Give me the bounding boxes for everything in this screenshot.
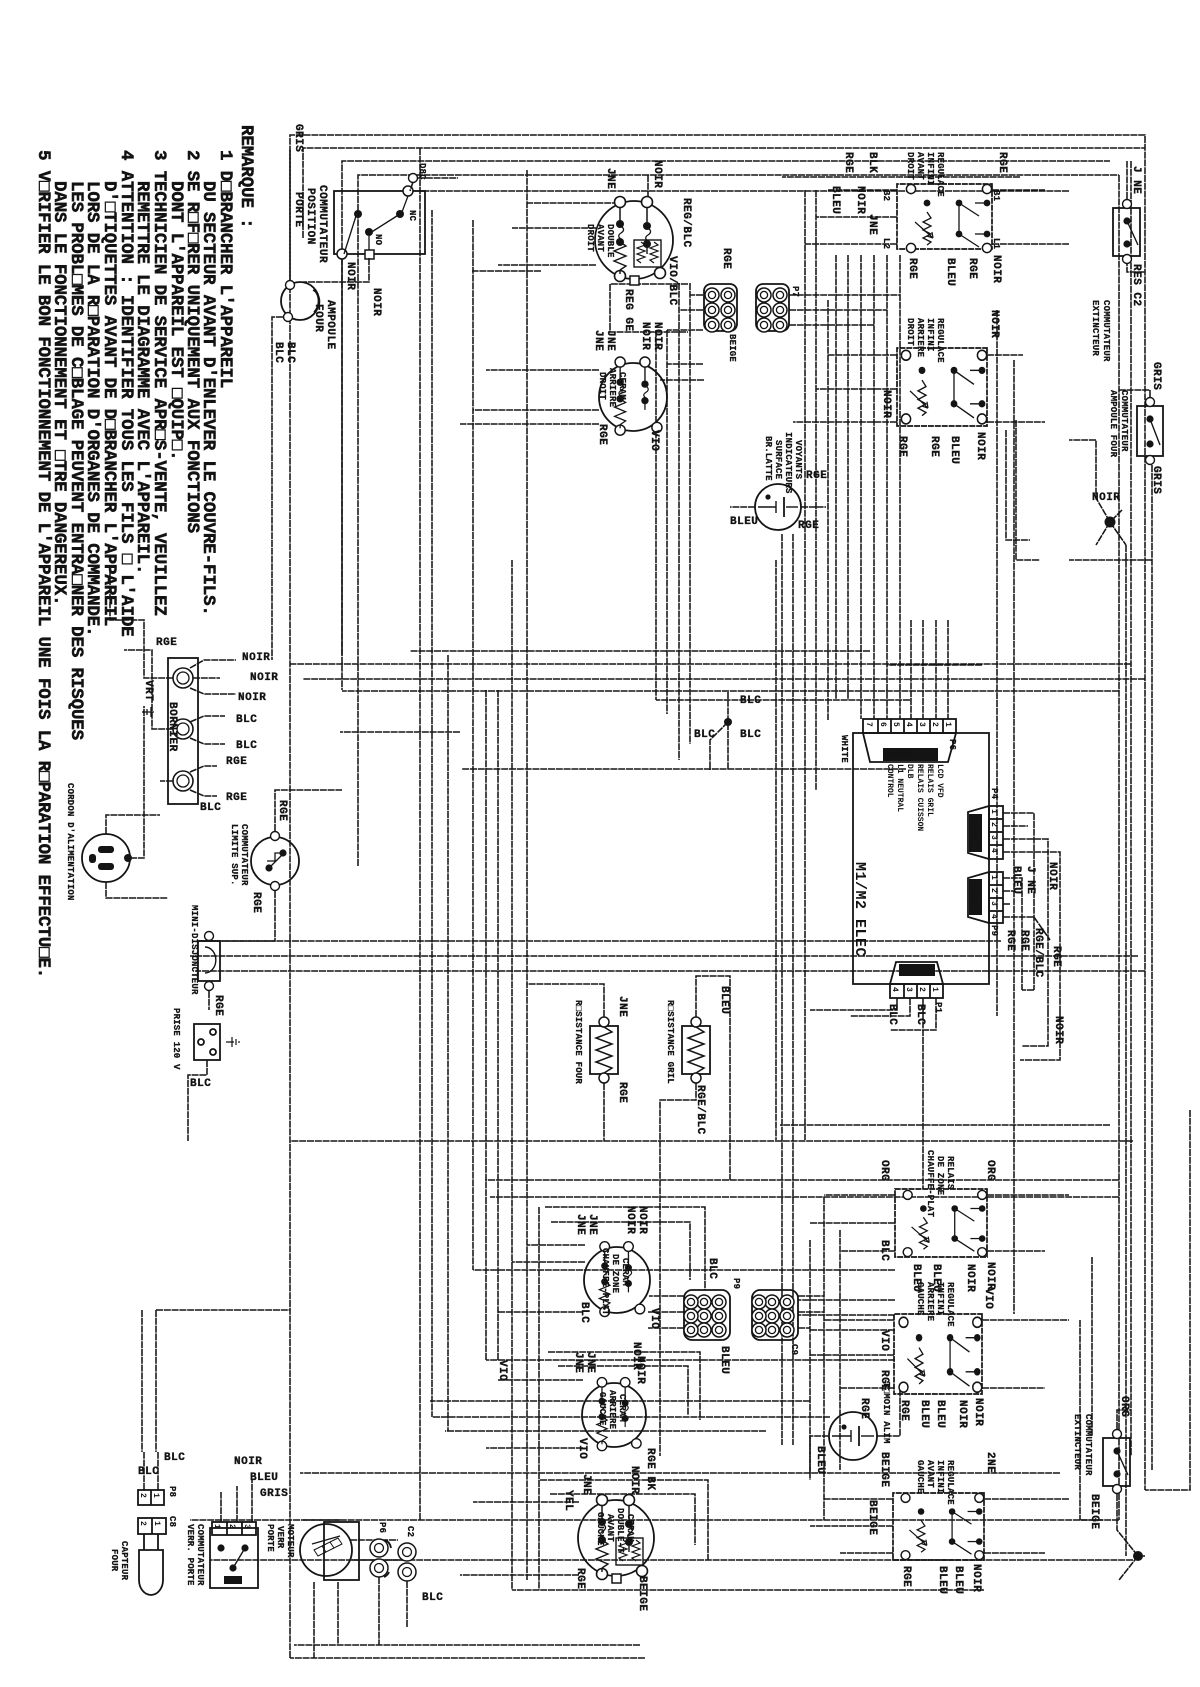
svg-text:LCD VFD: LCD VFD bbox=[935, 764, 944, 798]
svg-text:ORG: ORG bbox=[1118, 1396, 1130, 1417]
svg-text:POSITION: POSITION bbox=[304, 188, 316, 245]
svg-text:DROIT: DROIT bbox=[905, 152, 915, 180]
svg-text:AMPOULE: AMPOULE bbox=[324, 300, 336, 350]
svg-text:RGE: RGE bbox=[798, 520, 819, 532]
svg-text:NOIR: NOIR bbox=[990, 255, 1002, 283]
svg-text:BLC: BLC bbox=[914, 1004, 926, 1025]
wire top nest bbox=[1118, 175, 1120, 1520]
svg-text:REMARQUE :: REMARQUE : bbox=[236, 125, 256, 229]
svg-text:BEIGE: BEIGE bbox=[878, 1452, 890, 1488]
svg-text:BORNIER: BORNIER bbox=[166, 702, 178, 752]
svg-text:NOIR: NOIR bbox=[1046, 862, 1058, 890]
svg-text:BEIGE: BEIGE bbox=[727, 334, 737, 362]
svg-text:GAUCHE: GAUCHE bbox=[595, 1512, 605, 1546]
svg-text:BLEU: BLEU bbox=[934, 1400, 946, 1428]
connector 2x3 C7 beige bbox=[704, 248, 737, 362]
svg-text:JNE: JNE bbox=[592, 330, 604, 351]
svg-text:NOIR: NOIR bbox=[242, 652, 270, 664]
svg-text:RGE: RGE bbox=[806, 470, 827, 482]
svg-text:VIO: VIO bbox=[878, 1330, 890, 1351]
svg-text:LIMITE SUP.: LIMITE SUP. bbox=[229, 824, 239, 886]
svg-text:1: 1 bbox=[152, 1521, 161, 1526]
svg-text:RGE: RGE bbox=[226, 756, 247, 768]
svg-text:NOIR: NOIR bbox=[964, 1264, 976, 1292]
svg-text:2NE: 2NE bbox=[984, 1452, 996, 1473]
svg-text:P7: P7 bbox=[790, 286, 800, 297]
svg-text:3: 3 bbox=[242, 1524, 251, 1529]
svg-text:RGE: RGE bbox=[212, 995, 224, 1016]
svg-text:BLC: BLC bbox=[740, 695, 761, 707]
capteur four bbox=[109, 1452, 185, 1595]
svg-text:DOUBLE: DOUBLE bbox=[605, 224, 615, 258]
svg-text:NOIR: NOIR bbox=[636, 1206, 648, 1234]
svg-text:MINI-DISJONCTEUR: MINI-DISJONCTEUR bbox=[189, 905, 199, 995]
svg-text:3: 3 bbox=[917, 722, 926, 727]
svg-text:BLC: BLC bbox=[200, 802, 221, 814]
svg-text:2: 2 bbox=[917, 987, 926, 992]
svg-text:GREEN: GREEN bbox=[969, 817, 978, 841]
svg-text:NOIR: NOIR bbox=[972, 1398, 984, 1426]
svg-text:NOIR: NOIR bbox=[988, 310, 1000, 338]
wire extincteur top stubs bbox=[1127, 161, 1145, 272]
wire left long verticals additions bbox=[782, 176, 1020, 178]
svg-text:WHITE: WHITE bbox=[839, 735, 849, 763]
svg-text:INFINI: INFINI bbox=[925, 152, 935, 186]
svg-text:RGE: RGE bbox=[996, 152, 1008, 173]
regulateur zone chauffe-plat R3 bbox=[878, 1150, 996, 1292]
svg-text:4: 4 bbox=[989, 848, 998, 853]
svg-text:DE ZONE: DE ZONE bbox=[935, 1156, 945, 1196]
svg-text:GAUCHE: GAUCHE bbox=[597, 1392, 607, 1426]
svg-text:AVANT: AVANT bbox=[605, 1514, 615, 1542]
svg-text:YEL: YEL bbox=[562, 1490, 574, 1511]
svg-text:JNE: JNE bbox=[586, 1214, 598, 1235]
svg-text:P1: P1 bbox=[933, 1002, 943, 1014]
wire m1m2 right noir runs bbox=[1020, 990, 1060, 1060]
svg-text:AVANT: AVANT bbox=[915, 152, 925, 180]
svg-text:RGE: RGE bbox=[596, 424, 608, 445]
svg-text:B1: B1 bbox=[991, 190, 1001, 202]
svg-text:VIO: VIO bbox=[648, 1308, 660, 1329]
wire junction blc bbox=[724, 718, 732, 726]
ampoule four bbox=[272, 124, 336, 660]
svg-text:WHITE: WHITE bbox=[888, 751, 912, 760]
svg-text:1: 1 bbox=[930, 987, 939, 992]
svg-text:RGE: RGE bbox=[616, 1082, 628, 1103]
svg-text:BLC: BLC bbox=[706, 1258, 718, 1279]
wire capteur runs bbox=[142, 1310, 290, 1452]
svg-text:BLEU: BLEU bbox=[730, 516, 758, 528]
svg-text:RGE: RGE bbox=[898, 1400, 910, 1421]
svg-text:ARRIERE: ARRIERE bbox=[915, 318, 925, 358]
svg-text:NOIR: NOIR bbox=[984, 1262, 996, 1290]
wire mid-band horizontals feeding bottom elements bbox=[655, 330, 657, 700]
regulateur infini arriere droit R2 bbox=[880, 310, 1000, 464]
svg-text:NOIR: NOIR bbox=[651, 160, 663, 188]
ceram de zone chauffe-plat bbox=[574, 1206, 660, 1329]
svg-text:NOIR: NOIR bbox=[974, 432, 986, 460]
wire ceram2 drops bbox=[486, 369, 599, 371]
svg-text:BLC: BLC bbox=[236, 714, 257, 726]
svg-text:1: 1 bbox=[151, 1493, 160, 1498]
svg-text:VIO: VIO bbox=[982, 1288, 994, 1309]
svg-text:INFINI: INFINI bbox=[935, 1460, 945, 1494]
svg-text:VIO: VIO bbox=[496, 1360, 508, 1381]
svg-text:2: 2 bbox=[227, 1524, 236, 1529]
svg-text:NOIR: NOIR bbox=[238, 692, 266, 704]
svg-text:1: 1 bbox=[989, 809, 998, 814]
svg-text:JNE: JNE bbox=[604, 330, 616, 351]
svg-text:BLEU: BLEU bbox=[718, 1346, 730, 1374]
svg-text:BLC: BLC bbox=[236, 740, 257, 752]
svg-text:4: 4 bbox=[989, 914, 998, 919]
svg-text:PRISE 120 V: PRISE 120 V bbox=[171, 1008, 181, 1070]
commutateur limite sup bbox=[198, 790, 342, 941]
svg-text:DE ZONE: DE ZONE bbox=[610, 1254, 620, 1294]
svg-text:CORDON D'ALIMENTATION: CORDON D'ALIMENTATION bbox=[65, 783, 75, 901]
svg-text:L1 NEUTRAL: L1 NEUTRAL bbox=[895, 764, 904, 812]
junction noir top bbox=[1105, 517, 1116, 528]
connecteur c2 moteur bbox=[379, 1526, 443, 1645]
svg-text:PORTE: PORTE bbox=[265, 1524, 275, 1552]
svg-text:BLC: BLC bbox=[878, 1240, 890, 1261]
svg-text:RGE: RGE bbox=[1004, 930, 1016, 951]
svg-text:REGULACE: REGULACE bbox=[945, 1460, 955, 1505]
svg-text:RGE: RGE bbox=[226, 792, 247, 804]
svg-text:NOIR: NOIR bbox=[370, 288, 382, 316]
svg-text:VIO: VIO bbox=[648, 430, 660, 451]
svg-text:ARRIERE: ARRIERE bbox=[925, 1282, 935, 1322]
svg-text:VERR. PORTE: VERR. PORTE bbox=[185, 1524, 195, 1586]
wire rails around bottom ceram groups bbox=[545, 1207, 705, 1290]
svg-text:NOIR: NOIR bbox=[1052, 1016, 1064, 1044]
svg-text:BEIGE: BEIGE bbox=[1088, 1494, 1100, 1530]
wire mid horizontals bbox=[419, 148, 421, 1520]
connecteur p6 moteur bbox=[370, 1522, 391, 1577]
svg-text:RGE: RGE bbox=[720, 248, 732, 269]
svg-text:RELAIS GRIL: RELAIS GRIL bbox=[925, 764, 934, 817]
wire right verticals bbox=[290, 1140, 1133, 1142]
wire mid verticals bbox=[290, 663, 1131, 665]
moteur verr porte bbox=[265, 1522, 359, 1658]
svg-text:DROIT: DROIT bbox=[905, 318, 915, 346]
svg-text:BLEU: BLEU bbox=[952, 1566, 964, 1594]
svg-text:5 V□RIFIER LE BON FONCTIONNEM: 5 V□RIFIER LE BON FONCTIONNEMENT DE L'AP… bbox=[33, 150, 53, 978]
svg-text:BLEU: BLEU bbox=[944, 258, 956, 286]
svg-text:6: 6 bbox=[878, 722, 887, 727]
svg-text:BLC: BLC bbox=[190, 1078, 211, 1090]
wire outer loop bbox=[290, 135, 1145, 1658]
svg-text:RELAIS: RELAIS bbox=[945, 1156, 955, 1190]
svg-text:7: 7 bbox=[864, 722, 873, 727]
svg-text:3: 3 bbox=[904, 987, 913, 992]
svg-text:REGULACE: REGULACE bbox=[935, 152, 945, 197]
regulateur infini avant droit R1 bbox=[866, 152, 1008, 286]
svg-text:P8: P8 bbox=[167, 1486, 177, 1497]
svg-text:CERAM: CERAM bbox=[617, 1394, 627, 1422]
svg-text:ORG: ORG bbox=[984, 1160, 996, 1181]
svg-text:J NE: J NE bbox=[1130, 166, 1142, 194]
svg-text:NOIR: NOIR bbox=[880, 390, 892, 418]
svg-text:JNE: JNE bbox=[604, 168, 616, 189]
svg-text:P9: P9 bbox=[989, 925, 999, 936]
svg-text:NOIR: NOIR bbox=[970, 1564, 982, 1592]
svg-text:BLC: BLC bbox=[164, 1452, 185, 1464]
mini-disjoncteur bbox=[189, 905, 224, 1016]
pin strip P1 right bbox=[886, 962, 943, 1025]
svg-text:CERAM: CERAM bbox=[625, 1514, 635, 1542]
commutateur position porte bbox=[292, 163, 458, 690]
svg-text:GRIS: GRIS bbox=[1150, 362, 1162, 390]
svg-text:4: 4 bbox=[904, 722, 913, 727]
svg-text:3: 3 bbox=[989, 901, 998, 906]
svg-text:DOUBLE-T: DOUBLE-T bbox=[615, 1508, 625, 1553]
wire conn risers top cluster bbox=[789, 294, 900, 296]
svg-text:BR.LATTE: BR.LATTE bbox=[763, 436, 773, 481]
wire extincteur bottom stubs bbox=[1133, 1551, 1143, 1561]
svg-text:P6: P6 bbox=[947, 739, 957, 750]
svg-text:P9: P9 bbox=[731, 1278, 741, 1289]
svg-text:BLC: BLC bbox=[138, 1466, 159, 1478]
svg-text:NOIR: NOIR bbox=[234, 1456, 262, 1468]
svg-text:L2: L2 bbox=[881, 238, 891, 249]
svg-text:VIO/BLC: VIO/BLC bbox=[666, 256, 678, 306]
bornier terminal block bbox=[110, 566, 278, 814]
svg-text:CERAM: CERAM bbox=[617, 372, 627, 400]
svg-text:BEIGE: BEIGE bbox=[636, 1576, 648, 1612]
svg-text:RGE: RGE bbox=[156, 637, 177, 649]
svg-text:BLEU: BLEU bbox=[936, 1566, 948, 1594]
svg-text:RGE: RGE bbox=[1018, 930, 1030, 951]
wire right-half mid horizontals bbox=[823, 1197, 825, 1520]
svg-text:JNE: JNE bbox=[866, 214, 878, 235]
commutateur ampoule four switch bbox=[1108, 362, 1163, 494]
svg-text:CERAM: CERAM bbox=[620, 1258, 630, 1286]
svg-text:BLEU: BLEU bbox=[814, 1446, 826, 1474]
svg-text:1: 1 bbox=[943, 722, 952, 727]
svg-text:5: 5 bbox=[891, 722, 900, 727]
svg-text:NOIR: NOIR bbox=[634, 1356, 646, 1384]
relay riser wires R3 R4 R5 bbox=[810, 1195, 1069, 1251]
svg-text:RGE/BLC: RGE/BLC bbox=[1032, 928, 1044, 978]
commutateur extincteur (top) bbox=[1090, 166, 1142, 362]
svg-text:COMMUTATEUR: COMMUTATEUR bbox=[316, 185, 328, 263]
svg-text:RES C2: RES C2 bbox=[1130, 264, 1142, 307]
svg-text:GAUCHE: GAUCHE bbox=[915, 1460, 925, 1494]
svg-text:L1: L1 bbox=[991, 238, 1001, 250]
prise 120 v bbox=[171, 1008, 239, 1141]
svg-text:CAPTEUR: CAPTEUR bbox=[119, 1541, 129, 1581]
connector 2x3 upper pair bbox=[756, 284, 800, 332]
svg-text:MOTEUR: MOTEUR bbox=[285, 1524, 295, 1558]
svg-text:FOUR: FOUR bbox=[109, 1549, 119, 1572]
svg-text:GRIS: GRIS bbox=[1150, 466, 1162, 494]
ceram double avant droit bbox=[585, 160, 692, 332]
pin strip P9 top bbox=[968, 872, 1062, 990]
svg-text:P4: P4 bbox=[989, 788, 999, 800]
ceram double-t avant gauche bbox=[562, 1356, 654, 1612]
svg-text:VOYANTS: VOYANTS bbox=[793, 440, 803, 480]
relay riser wires R1 R2 bbox=[805, 190, 897, 244]
svg-text:JNE: JNE bbox=[616, 996, 628, 1017]
svg-text:GAUCHE: GAUCHE bbox=[915, 1282, 925, 1316]
svg-text:BLACK: BLACK bbox=[969, 882, 978, 906]
svg-text:2: 2 bbox=[138, 1521, 147, 1526]
svg-text:CHAUFFE-PLAT: CHAUFFE-PLAT bbox=[925, 1150, 935, 1218]
svg-text:COMMUTATEUR: COMMUTATEUR bbox=[1101, 300, 1111, 362]
svg-text:ARRIERE: ARRIERE bbox=[607, 1390, 617, 1430]
svg-text:2: 2 bbox=[989, 888, 998, 893]
svg-text:CONTROL: CONTROL bbox=[885, 764, 894, 798]
svg-text:REG/BLC: REG/BLC bbox=[680, 198, 692, 248]
svg-text:2: 2 bbox=[138, 1493, 147, 1498]
svg-text:4: 4 bbox=[890, 987, 899, 992]
wire m1m2 p6 feeds bbox=[861, 255, 900, 719]
svg-text:BLEU: BLEU bbox=[918, 1400, 930, 1428]
wire right-bottom verticals bbox=[490, 1196, 1119, 1198]
svg-text:2: 2 bbox=[930, 722, 939, 727]
svg-text:COMMUTATEUR: COMMUTATEUR bbox=[239, 824, 249, 886]
svg-text:NOIR: NOIR bbox=[628, 1466, 640, 1494]
svg-text:NC: NC bbox=[407, 210, 417, 222]
svg-text:AMPOULE FOUR: AMPOULE FOUR bbox=[1108, 390, 1118, 458]
svg-text:1: 1 bbox=[212, 1524, 221, 1529]
svg-text:DROIT: DROIT bbox=[585, 224, 595, 252]
svg-text:INFINI: INFINI bbox=[935, 1282, 945, 1316]
svg-text:NOIR: NOIR bbox=[651, 322, 663, 350]
svg-text:BEIGE: BEIGE bbox=[866, 1500, 878, 1536]
svg-text:C2: C2 bbox=[405, 1526, 415, 1537]
svg-text:BLC: BLC bbox=[422, 1592, 443, 1604]
svg-text:R□SISTANCE FOUR: R□SISTANCE FOUR bbox=[573, 1000, 583, 1084]
svg-text:INDICATEURS: INDICATEURS bbox=[783, 432, 793, 494]
svg-text:BLEU: BLEU bbox=[250, 1472, 278, 1484]
svg-text:RGE BK: RGE BK bbox=[644, 1448, 656, 1491]
svg-text:BLC: BLC bbox=[694, 729, 715, 741]
commutateur verr porte bbox=[185, 1456, 288, 1588]
svg-text:INFINI: INFINI bbox=[925, 318, 935, 352]
connector 3x3 P9 bbox=[684, 1258, 741, 1374]
svg-text:JNE: JNE bbox=[572, 1352, 584, 1373]
svg-text:SURFACE: SURFACE bbox=[773, 440, 783, 480]
svg-text:BLC: BLC bbox=[740, 729, 761, 741]
svg-text:BLC: BLC bbox=[272, 342, 284, 363]
svg-text:BLC: BLC bbox=[886, 1004, 898, 1025]
svg-text:RGE: RGE bbox=[900, 1566, 912, 1587]
svg-text:VIO: VIO bbox=[576, 1438, 588, 1459]
wires off terminals bbox=[190, 660, 236, 668]
svg-text:BLEU: BLEU bbox=[948, 436, 960, 464]
svg-text:ORG: ORG bbox=[878, 1160, 890, 1181]
svg-text:VERR: VERR bbox=[275, 1526, 285, 1549]
svg-text:B2: B2 bbox=[881, 190, 891, 201]
svg-text:RGE: RGE bbox=[878, 1370, 890, 1391]
temoin alim bbox=[810, 1382, 900, 1480]
wire left nest bbox=[303, 148, 1145, 238]
svg-text:FOUR: FOUR bbox=[312, 304, 324, 332]
svg-text:NOIR: NOIR bbox=[250, 672, 278, 684]
svg-text:NO: NO bbox=[373, 234, 383, 246]
svg-text:RGE: RGE bbox=[858, 1398, 870, 1419]
svg-text:JNE: JNE bbox=[580, 1474, 592, 1495]
voyants indicateurs bbox=[730, 432, 827, 532]
svg-text:NOIR: NOIR bbox=[639, 322, 651, 350]
svg-text:BLC: BLC bbox=[578, 1302, 590, 1323]
svg-text:REG GE: REG GE bbox=[622, 289, 634, 332]
svg-text:EXTINCTEUR: EXTINCTEUR bbox=[1090, 300, 1100, 356]
svg-text:EXTINCTEUR: EXTINCTEUR bbox=[1072, 1414, 1082, 1470]
commutateur extincteur (bottom) bbox=[1072, 1396, 1130, 1530]
svg-text:VRT: VRT bbox=[142, 680, 154, 701]
svg-text:J NE: J NE bbox=[1024, 866, 1036, 894]
wire gris pair bbox=[1006, 420, 1040, 560]
resistance gril bbox=[660, 976, 730, 1456]
wire conn risers bottom cluster bbox=[648, 1296, 684, 1328]
svg-text:COMMUTATEUR: COMMUTATEUR bbox=[1119, 390, 1129, 452]
svg-text:REGULACE: REGULACE bbox=[935, 318, 945, 363]
svg-text:NOIR: NOIR bbox=[1092, 492, 1120, 504]
svg-text:M1/M2 ELEC: M1/M2 ELEC bbox=[851, 862, 868, 957]
svg-text:GRIS: GRIS bbox=[292, 124, 304, 152]
svg-text:CHAUFFE-PLAT: CHAUFFE-PLAT bbox=[600, 1248, 610, 1316]
svg-text:NOIR: NOIR bbox=[344, 262, 356, 290]
svg-text:R□SISTANCE GRIL: R□SISTANCE GRIL bbox=[665, 1000, 675, 1084]
svg-text:RGE: RGE bbox=[842, 152, 854, 173]
svg-text:ARRIERE: ARRIERE bbox=[607, 368, 617, 408]
svg-text:COMMUTATEUR: COMMUTATEUR bbox=[1083, 1414, 1093, 1476]
wire ceram1 noir drop bbox=[472, 270, 541, 272]
svg-text:PORTE: PORTE bbox=[292, 192, 304, 228]
svg-text:JNE: JNE bbox=[574, 1214, 586, 1235]
connector 3x3 pair bbox=[752, 1290, 799, 1355]
regulateur infini arriere gauche R4 bbox=[878, 1282, 994, 1428]
svg-text:JNE: JNE bbox=[584, 1352, 596, 1373]
svg-text:RGE: RGE bbox=[906, 258, 918, 279]
svg-text:RGE: RGE bbox=[276, 800, 288, 821]
svg-text:RGE: RGE bbox=[1050, 946, 1062, 967]
svg-text:BLEU: BLEU bbox=[718, 986, 730, 1014]
svg-text:COMMUTATEUR: COMMUTATEUR bbox=[195, 1524, 205, 1586]
wire moteur feeds bbox=[303, 1520, 410, 1560]
svg-text:BLEU: BLEU bbox=[1010, 866, 1022, 894]
svg-text:BLC: BLC bbox=[284, 342, 296, 363]
cordon d'alimentation plug bbox=[65, 680, 168, 901]
pin strip P6 left bbox=[839, 719, 957, 831]
ceram arriere droit bbox=[592, 322, 667, 451]
svg-text:C8: C8 bbox=[167, 1516, 177, 1527]
svg-text:RGE: RGE bbox=[574, 1568, 586, 1589]
svg-text:GRIS: GRIS bbox=[260, 1488, 288, 1500]
svg-text:DROIT: DROIT bbox=[597, 372, 607, 400]
svg-text:3: 3 bbox=[989, 835, 998, 840]
svg-text:BLK: BLK bbox=[866, 152, 878, 173]
svg-text:C9: C9 bbox=[789, 1344, 799, 1355]
wire voyants band horizontals bbox=[781, 534, 783, 1445]
regulateur infini avant gauche R5 bbox=[866, 1452, 996, 1594]
svg-text:AVANT: AVANT bbox=[925, 1460, 935, 1488]
svg-text:RGE: RGE bbox=[896, 436, 908, 457]
svg-text:RGE: RGE bbox=[966, 258, 978, 279]
svg-text:NOIR: NOIR bbox=[624, 1206, 636, 1234]
svg-text:RGE: RGE bbox=[250, 892, 262, 913]
svg-text:P6: P6 bbox=[377, 1522, 387, 1533]
resistance four bbox=[527, 984, 628, 1141]
svg-text:DLB: DLB bbox=[905, 764, 914, 779]
pin strip P4 top bbox=[968, 788, 1064, 1044]
svg-text:2: 2 bbox=[989, 822, 998, 827]
svg-text:AVANT: AVANT bbox=[595, 224, 605, 252]
svg-text:NOIR: NOIR bbox=[956, 1400, 968, 1428]
